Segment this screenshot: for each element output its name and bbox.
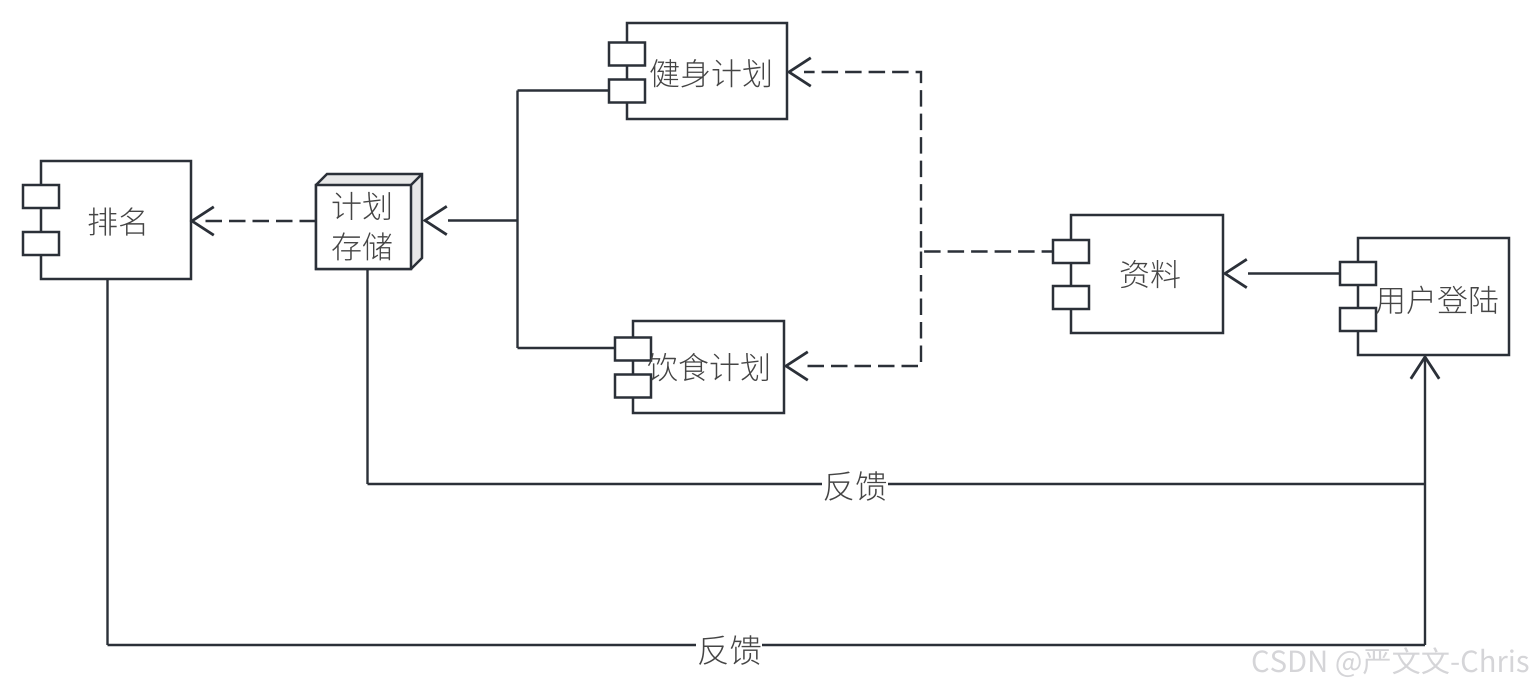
wire dashed arrow 计划存储 to 排名: [192, 207, 316, 235]
node 计划存储 (Plan storage) cube: [316, 174, 422, 269]
port 2 of 用户登陆 (User login): [1340, 308, 1376, 331]
label 计划存储 line 1: [333, 192, 390, 220]
label 用户登陆 (User login): [1376, 286, 1497, 314]
component 用户登陆 (User login): [1340, 238, 1509, 355]
port 1 of 饮食计划 (Diet plan): [615, 338, 651, 361]
label 反馈 (feedback) upper: [822, 468, 888, 502]
port 1 of 资料 (Profile data): [1053, 240, 1089, 263]
label 饮食计划 (Diet plan): [648, 353, 768, 381]
port 1 of 用户登陆 (User login): [1340, 262, 1376, 285]
label 资料 (Profile data): [1121, 260, 1180, 288]
port 2 of 排名 (Ranking): [23, 232, 59, 255]
port 2 of 饮食计划 (Diet plan): [615, 375, 651, 398]
label 排名 (Ranking): [89, 207, 145, 235]
watermark CSDN @严文文-Chris: [1253, 647, 1529, 677]
wire dashed net from 资料 to 健身计划 and 饮食计划: [786, 58, 1053, 380]
label 反馈 (feedback) lower: [696, 633, 762, 667]
port 1 of 健身计划 (Fitness plan): [609, 43, 645, 66]
label 计划存储 line 2: [332, 232, 391, 260]
wire tree from 健身计划/饮食计划 to 计划存储: [425, 91, 615, 349]
component 饮食计划 (Diet plan): [615, 321, 784, 413]
component 排名 (Ranking): [23, 161, 191, 279]
component 资料 (Profile data): [1053, 215, 1223, 333]
port 2 of 健身计划 (Fitness plan): [609, 80, 645, 103]
port 1 of 排名 (Ranking): [23, 185, 59, 208]
port 2 of 资料 (Profile data): [1053, 286, 1089, 309]
wire riser with arrow into 用户登陆 bottom: [1411, 357, 1439, 645]
wire solid arrow 用户登陆 to 资料: [1225, 259, 1340, 287]
component 健身计划 (Fitness plan): [609, 23, 787, 119]
wire feedback from 排名 joining riser: [108, 279, 1426, 645]
label 健身计划 (Fitness plan): [650, 59, 770, 88]
wire feedback from 计划存储 to 用户登陆: [368, 269, 1426, 484]
